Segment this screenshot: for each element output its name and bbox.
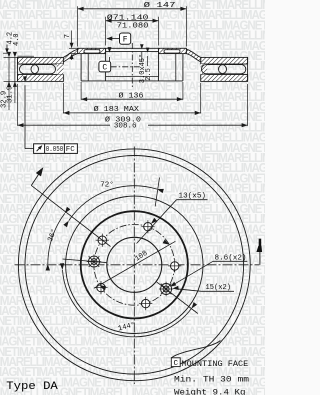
vertical centerline [133,147,135,385]
datum C [99,61,111,72]
chamfer circle [25,155,244,374]
bolt hole 1 (Ø13) [144,223,152,231]
svg-text:Ø 147: Ø 147 [144,1,176,10]
svg-text:MOUNTING FACE: MOUNTING FACE [182,359,249,369]
extension line at bolt hole 1 for 72 deg [155,178,159,207]
hat circle Ø147 [81,211,188,318]
bent arrow at radial end [31,170,41,186]
hat neck left [63,49,77,62]
svg-text:C: C [102,63,107,72]
bolt hole 3 (Ø13) [142,299,150,307]
runout tolerance frame 0.050 FC [34,144,78,154]
144 degree arc [62,270,191,337]
dimensions 32.9 / 31.9 [4,56,18,58]
friction ring left block [18,57,64,64]
front view of disc [15,147,263,385]
bolt circle Ø108 [94,224,175,305]
radial line through bolt hole 5 [31,185,110,246]
radial line through hole A [63,259,107,263]
hat flange section [78,48,106,53]
hat neck right [186,49,200,62]
svg-text:308.6: 308.6 [114,123,137,131]
svg-text:Ø 183 MAX: Ø 183 MAX [94,105,140,114]
svg-text:72°: 72° [100,181,114,190]
section centerline [131,43,133,88]
dimension Ø309.0/308.6 [17,84,19,126]
datum F [120,33,131,44]
bolt hole 2 (Ø13) [171,262,179,270]
elbow arrow right [259,252,261,265]
hat inner wall lines [87,54,89,81]
36 degree arc [48,213,65,264]
svg-text:71.080: 71.080 [117,22,149,30]
vent vanes (stadium channels) [20,65,39,74]
dimension Ø183 MAX [62,83,64,113]
dimension Ø147 [64,1,187,83]
brake disc cross-section view [18,43,248,88]
bolt circle dim 108 [94,241,175,288]
centre bore Ø71 [107,237,162,292]
svg-text:31.9: 31.9 [7,86,15,103]
note block [6,358,249,395]
radial line through hole B [157,282,198,314]
svg-text:FC: FC [66,146,75,154]
bolt hole 4 (Ø13) [97,283,105,291]
dimension Ø136 [80,82,82,100]
svg-text:0.050: 0.050 [46,146,64,154]
svg-text:4.0: 4.0 [13,33,21,46]
svg-text:F: F [123,36,128,45]
svg-text:Type DA: Type DA [6,381,58,393]
svg-text:Min. TH 30 mm: Min. TH 30 mm [174,374,249,384]
dimension Ø71.140/71.080 [105,17,107,46]
counterbored hole A Ø15/8.6 (left) [89,256,100,267]
braking band inner circle Ø183 [66,196,203,333]
svg-text:7: 7 [64,34,72,38]
bore silhouette lines [106,47,159,49]
friction ring right block [201,57,248,64]
svg-text:Weight 9.4 Kg: Weight 9.4 Kg [174,387,246,395]
svg-text:Ø 136: Ø 136 [119,92,144,101]
72 degree arc [69,186,157,221]
svg-text:2.5: 2.5 [145,68,153,81]
mounting face leader curve [171,341,220,358]
outer circle Ø309 [18,149,250,381]
disc OD edges [17,57,19,81]
svg-text:15(x2): 15(x2) [206,284,232,292]
counterbored hole B Ø15/8.6 (right-bottom) [161,284,172,295]
dimension 7 (flange thickness) [71,31,73,46]
svg-text:C: C [173,360,178,368]
svg-text:Ø71.140: Ø71.140 [107,13,149,22]
bolt hole 5 (Ø13) [98,236,106,244]
horizontal centerline [15,264,260,266]
hat skirt and mounting face [105,48,107,81]
